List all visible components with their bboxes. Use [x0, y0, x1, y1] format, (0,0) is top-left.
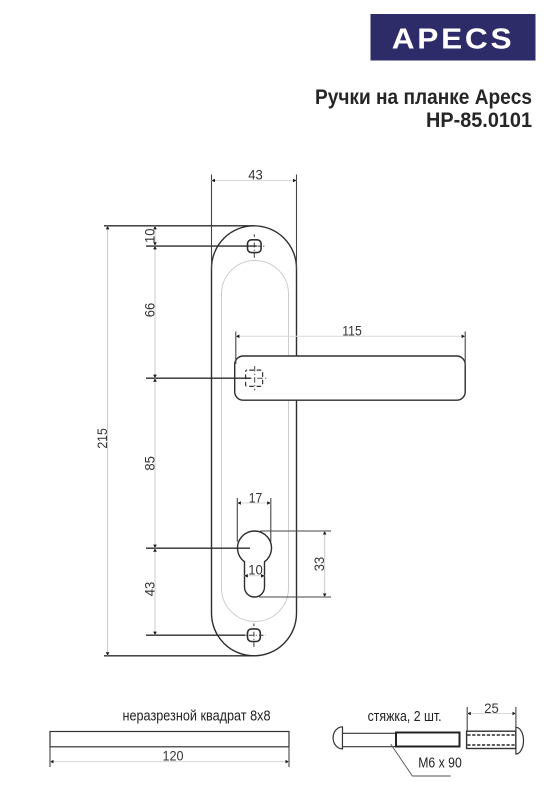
- svg-text:215: 215: [95, 428, 110, 449]
- dimension 17 keyhole: [237, 490, 270, 541]
- plate outer outline: [212, 226, 297, 656]
- svg-text:17: 17: [249, 490, 263, 505]
- svg-text:10: 10: [142, 229, 157, 244]
- horizontal line handle center: [146, 377, 251, 379]
- dimension 66: [142, 246, 157, 378]
- horizontal line hole1: [146, 245, 257, 247]
- dimension 215 left: [95, 226, 254, 656]
- svg-text:М6 х 90: М6 х 90: [418, 756, 462, 772]
- spindle hole dashed 8x8: [246, 366, 267, 391]
- top screw hole: [248, 234, 267, 258]
- plate inner outline: [222, 261, 289, 622]
- sleeve body: [467, 731, 516, 748]
- svg-text:120: 120: [163, 749, 184, 764]
- sleeve internal thread dashes: [467, 734, 515, 736]
- leader M6 x 90: [391, 744, 451, 776]
- horizontal line bottom hole: [146, 634, 246, 636]
- svg-text:33: 33: [312, 557, 327, 572]
- svg-text:стяжка, 2 шт.: стяжка, 2 шт.: [368, 708, 442, 725]
- tie screw threaded part: [396, 733, 460, 747]
- svg-text:APECS: APECS: [392, 24, 515, 56]
- bottom screw hole: [246, 624, 266, 648]
- dimension 10 top: [142, 226, 157, 246]
- dimension 10 slot: [244, 563, 264, 578]
- dimension 25 sleeve: [467, 701, 516, 731]
- svg-text:25: 25: [484, 701, 499, 716]
- tie screw head: [333, 727, 342, 749]
- svg-text:115: 115: [342, 324, 362, 339]
- svg-text:43: 43: [142, 582, 157, 597]
- svg-text:Ручки на планке Apecs: Ручки на планке Apecs: [315, 86, 532, 109]
- handle: [235, 356, 466, 400]
- svg-text:43: 43: [248, 168, 263, 183]
- dimension 33 keyhole height: [259, 531, 331, 597]
- tie screw shaft: [343, 733, 397, 746]
- dimension 43 lower: [142, 548, 157, 635]
- svg-text:неразрезной квадрат 8х8: неразрезной квадрат 8х8: [123, 708, 271, 725]
- svg-text:66: 66: [142, 303, 157, 318]
- dimension 85: [142, 378, 157, 548]
- dimension 43 top: [212, 168, 297, 271]
- cylinder keyhole: [238, 531, 272, 597]
- dimension 120 bar: [50, 747, 289, 767]
- svg-text:HP-85.0101: HP-85.0101: [426, 109, 532, 132]
- svg-text:85: 85: [142, 456, 157, 471]
- logo APECS: [371, 14, 536, 61]
- dimension 115 handle: [236, 324, 465, 367]
- horizontal line keyhole center: [146, 547, 250, 549]
- square bar body: [50, 732, 289, 747]
- sleeve dome head: [516, 727, 524, 754]
- svg-text:10: 10: [248, 563, 263, 578]
